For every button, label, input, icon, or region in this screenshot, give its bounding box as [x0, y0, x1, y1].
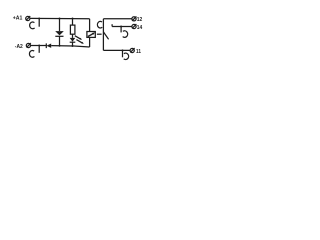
svg-text:11: 11 — [136, 49, 141, 55]
junction D2 top — [59, 18, 61, 20]
junction A2 pin — [38, 45, 40, 47]
diode D1 (series, cathode left) — [46, 43, 51, 48]
socket hook A2 — [29, 50, 34, 57]
top wire — [30, 17, 90, 19]
coil branch wire top — [89, 19, 91, 32]
wire A2 — [31, 45, 47, 47]
mechanical link (dash) — [97, 33, 102, 35]
svg-text:12: 12 — [137, 17, 143, 23]
socket hook 11 — [124, 53, 129, 59]
socket hook pole — [97, 21, 102, 28]
junction A1 pin — [38, 18, 40, 20]
contact arm — [103, 32, 108, 39]
svg-text:+A1: +A1 — [13, 16, 23, 22]
contact 14 line — [112, 26, 132, 28]
socket hook A1 — [30, 22, 35, 29]
pin A2 (plug-in) — [38, 46, 40, 53]
svg-text:-A2: -A2 — [15, 44, 23, 50]
LED — [70, 38, 76, 46]
contact 12 line — [103, 18, 131, 20]
pin 14 (plug-in) — [120, 27, 122, 33]
terminal 14 — [132, 24, 137, 28]
svg-text:14: 14 — [137, 25, 143, 31]
resistor R1 — [70, 19, 75, 38]
diode D2 (vertical suppressor) — [55, 19, 64, 46]
junction 11 pin — [122, 49, 124, 51]
terminal 12 — [132, 16, 137, 20]
terminal A2 — [26, 43, 31, 48]
LED arrow 2 — [76, 40, 83, 44]
terminal 11 — [130, 48, 135, 53]
bottom wire — [51, 46, 89, 47]
junction LED bottom — [72, 45, 74, 47]
socket hook 14 — [123, 31, 128, 38]
coil branch wire bottom — [89, 37, 91, 47]
contact 14 fixed tick — [111, 24, 113, 26]
junction D2 bottom — [59, 45, 61, 47]
LED arrow 1 — [75, 36, 82, 40]
pin A1 (plug-in) — [38, 19, 40, 27]
pin 11 (plug-in) — [122, 50, 124, 57]
pole wire (common) — [103, 19, 130, 51]
junction 14 pin — [120, 26, 122, 28]
junction R1 top — [72, 18, 74, 20]
relay coil K1 — [87, 32, 95, 38]
terminal A1 — [26, 16, 31, 20]
